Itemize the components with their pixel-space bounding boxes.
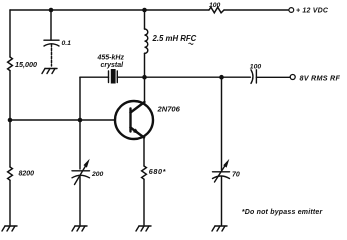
ground G4	[72, 226, 87, 231]
ground G2	[42, 69, 57, 74]
svg-text:2N706: 2N706	[157, 105, 181, 114]
capacitor 100 (coupling)	[251, 70, 256, 84]
svg-text:455-kHz: 455-kHz	[97, 55, 125, 62]
inductor 2.5mH RFC	[145, 29, 148, 53]
svg-text:2.5 mH RFC: 2.5 mH RFC	[152, 34, 197, 43]
variable capacitor 200	[72, 164, 90, 185]
svg-text:0.1: 0.1	[62, 40, 72, 47]
emitter arrow	[133, 129, 140, 135]
svg-text:70: 70	[232, 171, 240, 178]
wire left rail lower	[9, 120, 11, 167]
wire top rail left segment	[10, 9, 209, 11]
junction dot node A (top, cap 0.1)	[49, 8, 54, 13]
wire top rail right segment	[224, 9, 289, 11]
wire collector	[144, 77, 146, 101]
junction dot node D (output / trimmer 70)	[219, 75, 224, 80]
wire crystal feedback vertical	[79, 77, 81, 120]
wire emitter down	[143, 139, 145, 167]
capacitor 0.1	[44, 40, 59, 46]
ground G5	[212, 226, 227, 231]
variable capacitor 70	[213, 163, 230, 183]
junction dot node B (top, RFC)	[142, 8, 147, 13]
wire trimmer 70 drop	[221, 77, 223, 170]
crystal XTAL 455kHz	[109, 69, 118, 84]
junction dot node C (collector/crystal)	[142, 75, 147, 80]
wire 200 to ground	[79, 176, 81, 225]
wire RFC drop	[144, 10, 146, 29]
wire mid right	[117, 76, 250, 78]
svg-text:200: 200	[91, 171, 104, 178]
wire RFC to node	[144, 53, 146, 77]
transistor Q1 2N706	[115, 101, 153, 139]
resistor R 100 (top)	[209, 7, 224, 13]
junction dot node E (base rail left)	[8, 118, 13, 123]
svg-text:100: 100	[209, 2, 221, 9]
svg-text:+ 12 VDC: + 12 VDC	[296, 8, 329, 15]
svg-text:680*: 680*	[149, 167, 167, 176]
junction dot node F (crystal / trimmer 200)	[78, 118, 83, 123]
wire 70 to ground	[221, 177, 223, 225]
wire left rail upper	[9, 10, 11, 57]
wire left rail middle	[9, 71, 11, 120]
trimmer 200 arrow head	[84, 159, 90, 168]
terminal +12VDC	[289, 8, 294, 13]
wire left rail to ground	[9, 180, 11, 225]
wire trimmer 200 drop	[79, 120, 81, 169]
wire mid left	[80, 76, 109, 78]
wire cap 0.1 to ground	[51, 44, 53, 66]
svg-text:15,000: 15,000	[15, 60, 37, 69]
wire cap 0.1 drop	[50, 10, 52, 40]
ground G3	[136, 226, 151, 231]
wire emitter to ground	[143, 179, 145, 225]
svg-text:8V RMS RF: 8V RMS RF	[300, 73, 341, 82]
svg-text:100: 100	[250, 64, 262, 71]
terminal 8V RMS RF	[290, 75, 295, 80]
svg-text:*Do not bypass emitter: *Do not bypass emitter	[242, 209, 324, 216]
resistor 680	[142, 166, 147, 179]
svg-text:8200: 8200	[19, 170, 35, 177]
wire cap to output terminal	[256, 76, 290, 78]
trimmer 70 arrow head	[223, 159, 229, 168]
resistor 8200	[8, 167, 13, 180]
ground G1	[2, 226, 17, 231]
resistor 15,000	[8, 57, 13, 71]
wire base	[10, 119, 115, 121]
svg-text:crystal: crystal	[101, 62, 125, 69]
